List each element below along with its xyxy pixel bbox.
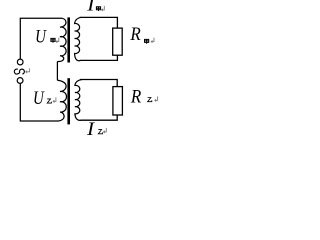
terminal circle upper xyxy=(17,59,23,65)
wire bottom-left (bottom rail and left vertical to lower terminal) xyxy=(20,84,58,121)
resistor R yi box xyxy=(113,87,123,115)
wire secondary bottom loop (top rail, right side down to resistor, bottom rail) xyxy=(80,80,117,121)
wire secondary top loop (top rail, right side down to resistor, bottom rail) xyxy=(80,17,118,60)
winding secondary bottom (transformer yi secondary coil) xyxy=(75,80,82,121)
winding primary top (transformer jia primary coil) xyxy=(57,18,66,61)
terminal circle lower xyxy=(17,78,23,84)
subscript yi of U yi xyxy=(47,99,51,103)
svg-text:I: I xyxy=(86,119,95,140)
wire between primary windings (series link) xyxy=(56,62,58,81)
paragraph mark after R yi xyxy=(155,96,158,101)
paragraph mark after I jia xyxy=(102,6,105,11)
paragraph mark after R jia xyxy=(151,38,154,43)
AC source squiggle xyxy=(14,69,24,74)
svg-text:R: R xyxy=(129,23,140,44)
paragraph mark after I yi xyxy=(104,128,107,133)
paragraph mark after U jia xyxy=(56,38,59,43)
subscript jia of U jia xyxy=(51,38,55,42)
svg-text:R: R xyxy=(130,86,141,107)
paragraph mark after AC squiggle xyxy=(26,68,30,73)
paragraph mark after U yi xyxy=(53,97,56,102)
svg-text:I: I xyxy=(86,0,95,15)
wire top-left (left vertical from upper terminal up and top rail to primary winding) xyxy=(20,18,62,58)
winding primary bottom (transformer yi primary coil) xyxy=(57,80,66,121)
subscript jia of R jia xyxy=(145,39,149,43)
subscript jia of I jia xyxy=(96,7,100,11)
core bar bottom transformer xyxy=(67,78,70,124)
core bar top transformer xyxy=(67,17,70,62)
resistor R jia box xyxy=(113,28,123,55)
subscript yi of I yi xyxy=(98,130,102,134)
subscript yi of R yi xyxy=(148,98,152,102)
svg-text:U: U xyxy=(35,26,47,47)
svg-text:U: U xyxy=(33,87,45,108)
winding secondary top (transformer jia secondary coil) xyxy=(75,17,82,60)
